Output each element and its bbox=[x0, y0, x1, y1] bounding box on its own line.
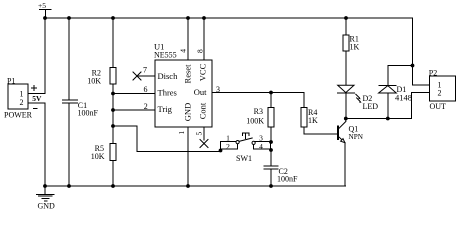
node rail-pin8 bbox=[202, 16, 206, 20]
wire SW1 right to C2 bbox=[270, 150, 272, 166]
svg-text:Cont: Cont bbox=[198, 102, 208, 119]
svg-text:GND: GND bbox=[183, 103, 193, 121]
svg-text:NE555: NE555 bbox=[154, 50, 177, 59]
power +5 symbol bbox=[38, 1, 51, 18]
node thres bbox=[111, 92, 115, 96]
svg-text:2: 2 bbox=[144, 102, 148, 111]
switch SW1 bbox=[221, 133, 271, 163]
svg-text:2: 2 bbox=[438, 89, 442, 98]
svg-text:5V: 5V bbox=[32, 94, 42, 103]
svg-text:OUT: OUT bbox=[430, 102, 447, 111]
node rail-pin4 bbox=[186, 16, 190, 20]
transistor Q1 NPN bbox=[338, 119, 364, 187]
svg-text:Disch: Disch bbox=[158, 71, 179, 81]
svg-text:2: 2 bbox=[20, 98, 24, 107]
wire P1 pin2 to ground rail bbox=[28, 103, 45, 186]
wire VCC pin8 to rail bbox=[196, 18, 205, 60]
node D1-anode bbox=[386, 117, 390, 121]
wire Reset pin4 to rail bbox=[179, 18, 189, 60]
svg-text:8: 8 bbox=[196, 49, 205, 53]
ground symbol GND bbox=[37, 186, 56, 211]
svg-text:100K: 100K bbox=[246, 116, 264, 125]
svg-text:Trig: Trig bbox=[158, 104, 173, 114]
wire Out pin3 bbox=[212, 85, 304, 94]
connector P2 bbox=[429, 68, 456, 111]
wire node to Trig pin2 bbox=[113, 94, 155, 111]
svg-text:5: 5 bbox=[195, 132, 204, 136]
svg-text:100nF: 100nF bbox=[78, 108, 99, 117]
svg-text:VCC: VCC bbox=[198, 63, 208, 81]
node rail-R2 bbox=[111, 16, 115, 20]
node trig bbox=[111, 108, 115, 112]
node D1-P2 bbox=[411, 64, 415, 68]
resistor R2 bbox=[87, 18, 116, 94]
svg-text:Out: Out bbox=[194, 87, 207, 97]
node sw1-pin4 bbox=[269, 148, 273, 152]
wire P1 pin1 to +5 rail bbox=[28, 18, 45, 93]
node gnd-R5 bbox=[111, 184, 115, 188]
wire rail right end down to P2 pin1 bbox=[413, 18, 430, 85]
resistor R1 bbox=[343, 18, 360, 85]
node sw1-pin3 bbox=[269, 140, 273, 144]
svg-text:+5: +5 bbox=[38, 1, 46, 10]
svg-text:GND: GND bbox=[38, 202, 56, 211]
wire top +5V rail bbox=[45, 17, 413, 19]
svg-text:1: 1 bbox=[20, 90, 24, 99]
wire node down to SW1 branch bbox=[113, 110, 221, 152]
resistor R3 bbox=[246, 93, 274, 142]
svg-text:6: 6 bbox=[144, 85, 148, 94]
svg-text:10K: 10K bbox=[87, 76, 101, 85]
resistor R5 bbox=[91, 126, 116, 186]
svg-text:4148: 4148 bbox=[395, 93, 412, 103]
node gnd-C2 bbox=[269, 184, 273, 188]
IC U1 NE555 timer bbox=[154, 42, 212, 128]
node gnd-pin1 bbox=[186, 184, 190, 188]
svg-text:100nF: 100nF bbox=[277, 175, 298, 184]
diode D1 4148 bbox=[379, 66, 413, 119]
node collector bbox=[344, 117, 348, 121]
wire collector node to P2 pin2 bbox=[346, 93, 430, 119]
node gnd-P1 bbox=[43, 184, 47, 188]
connector P1 bbox=[4, 76, 42, 119]
node rail-C1 bbox=[67, 16, 71, 20]
svg-text:3: 3 bbox=[216, 85, 220, 94]
svg-text:4: 4 bbox=[259, 142, 263, 151]
wire bottom ground rail bbox=[45, 185, 346, 187]
svg-text:4: 4 bbox=[179, 49, 188, 53]
svg-text:7: 7 bbox=[143, 66, 147, 75]
node sw1-left bbox=[219, 149, 223, 153]
pin 5 Cont stub with no-connect X bbox=[195, 127, 209, 147]
svg-text:LED: LED bbox=[363, 102, 379, 111]
svg-text:R3: R3 bbox=[254, 107, 263, 116]
node out-R3 bbox=[269, 91, 273, 95]
svg-text:POWER: POWER bbox=[4, 110, 33, 119]
svg-text:P2: P2 bbox=[429, 68, 437, 77]
svg-text:SW1: SW1 bbox=[236, 154, 252, 163]
svg-text:2: 2 bbox=[226, 142, 230, 151]
node rail-R1 bbox=[344, 16, 348, 20]
svg-text:1K: 1K bbox=[350, 43, 360, 52]
capacitor C1 bbox=[63, 18, 99, 186]
svg-text:Reset: Reset bbox=[183, 64, 193, 84]
svg-text:1K: 1K bbox=[308, 116, 318, 125]
node gnd-C1 bbox=[67, 184, 71, 188]
svg-text:10K: 10K bbox=[91, 152, 105, 161]
pin 7 Disch stub with no-connect X bbox=[133, 66, 155, 80]
node rail-P1 bbox=[43, 16, 47, 20]
pin 1 GND wire to ground rail bbox=[177, 127, 188, 186]
svg-text:1: 1 bbox=[177, 131, 186, 135]
LED D2 bbox=[337, 85, 378, 118]
node sw-branch bbox=[111, 124, 115, 128]
svg-text:P1: P1 bbox=[7, 76, 15, 85]
svg-text:NPN: NPN bbox=[349, 133, 364, 141]
capacitor C2 bbox=[264, 166, 298, 186]
resistor R4 bbox=[301, 93, 337, 135]
svg-text:Thres: Thres bbox=[158, 88, 177, 98]
wire R2 bottom to Thres pin6 bbox=[113, 93, 155, 95]
